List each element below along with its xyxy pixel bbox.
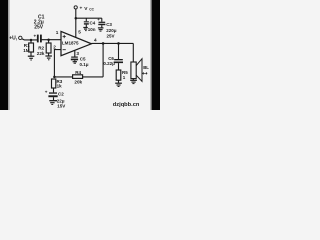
- paper background: [0, 0, 160, 110]
- svg-text:25V: 25V: [107, 34, 115, 39]
- resistor R4 20k: [73, 70, 83, 84]
- svg-text:CC: CC: [89, 8, 94, 12]
- ground under C2: [49, 101, 57, 105]
- node Vcc rail: [75, 17, 78, 20]
- wire output to speaker: [132, 43, 134, 62]
- wire input to C1: [22, 39, 37, 40]
- ground under speaker: [130, 80, 137, 83]
- op-amp U1 LM1875: [61, 31, 91, 55]
- node input/R1: [30, 39, 33, 42]
- capacitor C2 22u 15V: [45, 90, 65, 109]
- node feedback/output: [102, 42, 105, 45]
- resistor R3 1k: [52, 79, 63, 93]
- ground under R2: [45, 56, 52, 60]
- wire feedback vertical: [102, 43, 104, 77]
- svg-text:C5: C5: [80, 56, 86, 61]
- svg-text:+: +: [45, 90, 48, 95]
- svg-text:0.22μ: 0.22μ: [103, 61, 115, 66]
- right black bar: [152, 0, 160, 110]
- svg-text:BL: BL: [143, 65, 149, 70]
- svg-text:i: i: [16, 37, 17, 41]
- svg-text:+U: +U: [9, 35, 16, 41]
- wire pin2 down: [54, 50, 61, 77]
- svg-text:C4: C4: [90, 21, 96, 26]
- svg-text:20k: 20k: [74, 79, 82, 84]
- svg-text:R2: R2: [38, 45, 44, 50]
- ground under C5: [73, 62, 77, 64]
- svg-text:220μ: 220μ: [106, 28, 117, 33]
- resistor R1 1M: [23, 40, 33, 56]
- wire Vcc to pin5: [75, 9, 77, 38]
- node pin2/R3: [53, 76, 56, 79]
- node Zobel top: [117, 42, 120, 45]
- svg-text:15V: 15V: [57, 103, 65, 108]
- svg-text:+: +: [34, 34, 37, 39]
- resistor R5 1: [116, 70, 128, 83]
- speaker BL: [131, 59, 149, 82]
- wire C1 to op-amp input: [42, 39, 62, 41]
- ground under C3: [98, 28, 104, 31]
- left black bar: [0, 0, 8, 110]
- capacitor C3 220u 25V: [97, 17, 117, 39]
- wire feedback horizontal: [54, 76, 103, 78]
- svg-text:LM1875: LM1875: [62, 40, 79, 45]
- terminal +Vcc: [74, 6, 95, 12]
- capacitor C5 0.1u on pin 3: [71, 50, 89, 67]
- svg-text:+: +: [97, 17, 100, 22]
- resistor R2 22k: [37, 40, 51, 56]
- svg-text:+: +: [80, 7, 83, 12]
- capacitor C6 0.22u: [103, 43, 123, 70]
- svg-text:R4: R4: [75, 70, 81, 75]
- wire output: [91, 42, 133, 44]
- svg-text:25V: 25V: [34, 24, 44, 30]
- wire Vcc rail: [76, 17, 102, 19]
- ground under R1: [28, 56, 35, 60]
- ground under C4: [83, 28, 88, 31]
- capacitor C4 10n: [84, 18, 96, 32]
- svg-text:5: 5: [78, 30, 81, 35]
- ground under R5: [115, 83, 122, 86]
- svg-text:2: 2: [53, 44, 56, 49]
- capacitor C1 2.2u 25V: [34, 15, 45, 43]
- svg-text:dzjqbb.cn: dzjqbb.cn: [113, 102, 140, 108]
- svg-text:22k: 22k: [37, 51, 45, 56]
- svg-text:1k: 1k: [57, 83, 63, 88]
- svg-text:4: 4: [94, 37, 97, 42]
- svg-text:0.1μ: 0.1μ: [80, 62, 89, 67]
- node R2 top: [47, 39, 50, 42]
- svg-text:C2: C2: [58, 91, 64, 96]
- svg-text:1: 1: [56, 30, 59, 35]
- svg-text:C3: C3: [106, 22, 112, 27]
- svg-text:10n: 10n: [88, 27, 96, 32]
- input terminal +Ui: [9, 35, 22, 41]
